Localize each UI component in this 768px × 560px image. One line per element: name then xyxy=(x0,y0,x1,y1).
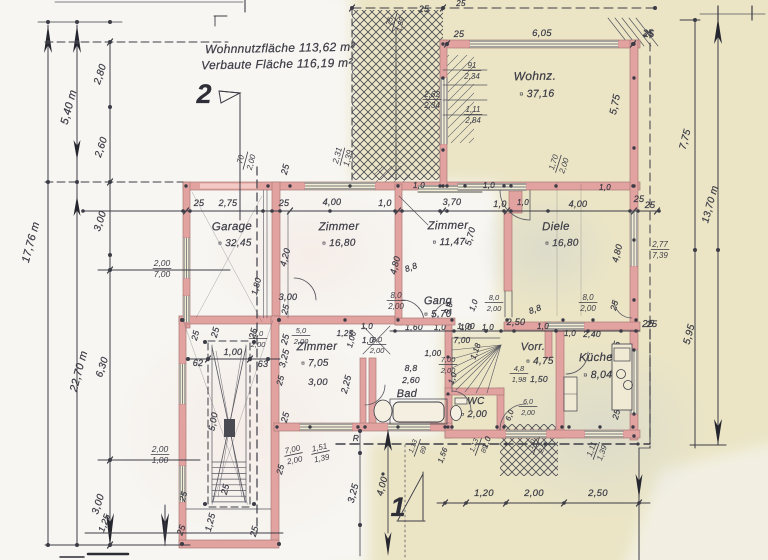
svg-text:1,98: 1,98 xyxy=(512,375,527,384)
svg-text:1,00: 1,00 xyxy=(425,349,442,358)
svg-text:4,00: 4,00 xyxy=(323,197,342,207)
svg-text:2,50: 2,50 xyxy=(587,488,608,499)
svg-text:8,0: 8,0 xyxy=(582,293,594,302)
svg-text:2,84: 2,84 xyxy=(464,116,481,125)
svg-text:1: 1 xyxy=(390,492,405,522)
svg-text:8,0: 8,0 xyxy=(390,291,402,300)
svg-text:1,0: 1,0 xyxy=(362,336,374,345)
svg-text:1,0: 1,0 xyxy=(413,181,425,190)
svg-text:1,0: 1,0 xyxy=(483,181,495,190)
svg-text:1,11: 1,11 xyxy=(466,105,481,114)
svg-text:8,0: 8,0 xyxy=(253,329,264,338)
svg-text:25: 25 xyxy=(633,194,645,204)
svg-text:2,62: 2,62 xyxy=(423,90,440,99)
svg-text:2,75: 2,75 xyxy=(218,198,238,208)
svg-text:3,70: 3,70 xyxy=(443,197,462,207)
svg-text:WC: WC xyxy=(467,396,485,407)
svg-text:2: 2 xyxy=(195,79,211,109)
svg-text:25: 25 xyxy=(644,200,656,210)
svg-text:1,50: 1,50 xyxy=(530,374,548,384)
svg-text:2,00: 2,00 xyxy=(579,304,596,313)
svg-text:25: 25 xyxy=(641,319,654,330)
svg-text:2,60: 2,60 xyxy=(401,375,420,385)
svg-text:1,0: 1,0 xyxy=(361,322,373,331)
svg-text:▫ 8,04: ▫ 8,04 xyxy=(583,369,612,382)
svg-text:5,0: 5,0 xyxy=(296,326,307,335)
svg-text:3,00: 3,00 xyxy=(308,377,328,388)
svg-text:Wohnnutzfläche 113,62 m²: Wohnnutzfläche 113,62 m² xyxy=(205,40,356,57)
svg-text:7,00: 7,00 xyxy=(154,269,171,279)
svg-text:4,00: 4,00 xyxy=(569,199,588,209)
svg-text:1,0: 1,0 xyxy=(482,323,494,332)
svg-text:2,00: 2,00 xyxy=(486,304,502,313)
svg-text:▫ 32,45: ▫ 32,45 xyxy=(218,238,252,250)
svg-text:8,8: 8,8 xyxy=(405,363,418,373)
svg-text:4,8: 4,8 xyxy=(514,364,525,373)
svg-text:▫ 2,00: ▫ 2,00 xyxy=(461,409,488,420)
svg-text:▫ 16,80: ▫ 16,80 xyxy=(545,238,579,250)
svg-text:3,00: 3,00 xyxy=(279,292,298,302)
svg-text:1,0: 1,0 xyxy=(537,322,549,331)
svg-text:2,00: 2,00 xyxy=(523,488,544,499)
svg-text:6,0: 6,0 xyxy=(523,399,533,406)
svg-text:2,00: 2,00 xyxy=(151,444,169,454)
svg-text:7,00: 7,00 xyxy=(454,336,471,345)
svg-text:Zimmer: Zimmer xyxy=(426,220,469,233)
svg-text:1,0: 1,0 xyxy=(378,198,391,208)
svg-text:1,00: 1,00 xyxy=(224,347,243,357)
svg-text:1,0: 1,0 xyxy=(493,199,506,209)
svg-text:2,40: 2,40 xyxy=(582,329,601,339)
svg-text:1,0: 1,0 xyxy=(460,323,472,332)
svg-text:91: 91 xyxy=(468,61,477,70)
svg-text:Garage: Garage xyxy=(212,221,252,234)
svg-text:1,0: 1,0 xyxy=(517,198,529,207)
svg-text:62: 62 xyxy=(193,358,204,368)
svg-text:25: 25 xyxy=(453,29,465,39)
svg-text:25: 25 xyxy=(643,29,655,39)
svg-text:7,39: 7,39 xyxy=(652,251,668,260)
svg-text:7,00: 7,00 xyxy=(441,355,456,364)
svg-text:2,00: 2,00 xyxy=(440,366,456,375)
svg-text:8,0: 8,0 xyxy=(489,293,500,302)
svg-text:25: 25 xyxy=(418,4,430,14)
svg-text:Zimmer: Zimmer xyxy=(317,221,360,234)
svg-text:2,77: 2,77 xyxy=(651,240,668,249)
svg-text:Bad: Bad xyxy=(397,388,418,400)
svg-text:25: 25 xyxy=(193,198,205,208)
svg-text:Vorr.: Vorr. xyxy=(521,341,546,353)
svg-text:1,25: 1,25 xyxy=(337,329,354,338)
svg-text:1,20: 1,20 xyxy=(474,488,494,499)
svg-text:25: 25 xyxy=(278,198,290,208)
svg-text:▫ 16,80: ▫ 16,80 xyxy=(322,238,356,250)
svg-text:Diele: Diele xyxy=(542,221,570,233)
svg-text:2,34: 2,34 xyxy=(423,101,440,110)
svg-text:R: R xyxy=(353,433,359,443)
svg-text:▫ 4,75: ▫ 4,75 xyxy=(526,356,554,367)
svg-text:▫ 11,47: ▫ 11,47 xyxy=(433,237,466,249)
svg-text:6,05: 6,05 xyxy=(532,28,552,39)
svg-text:2,00: 2,00 xyxy=(250,340,266,349)
svg-text:2,34: 2,34 xyxy=(463,72,480,81)
svg-text:Wohnz.: Wohnz. xyxy=(514,69,557,84)
svg-text:1,0: 1,0 xyxy=(564,329,576,338)
svg-text:63: 63 xyxy=(258,359,269,369)
svg-text:2,00: 2,00 xyxy=(387,302,404,311)
svg-text:Verbaute Fläche 116,19 m²: Verbaute Fläche 116,19 m² xyxy=(201,56,354,73)
svg-text:2,00: 2,00 xyxy=(293,337,309,346)
svg-text:2,00: 2,00 xyxy=(369,346,385,355)
svg-text:2,00: 2,00 xyxy=(153,258,171,268)
svg-text:2,00: 2,00 xyxy=(520,410,535,417)
svg-text:1,00: 1,00 xyxy=(152,455,169,465)
svg-text:▫ 7,05: ▫ 7,05 xyxy=(301,358,329,369)
svg-text:2,50: 2,50 xyxy=(506,317,526,327)
svg-text:1,0: 1,0 xyxy=(599,183,611,192)
svg-text:25: 25 xyxy=(455,0,466,8)
svg-text:▫ 37,16: ▫ 37,16 xyxy=(519,88,554,101)
